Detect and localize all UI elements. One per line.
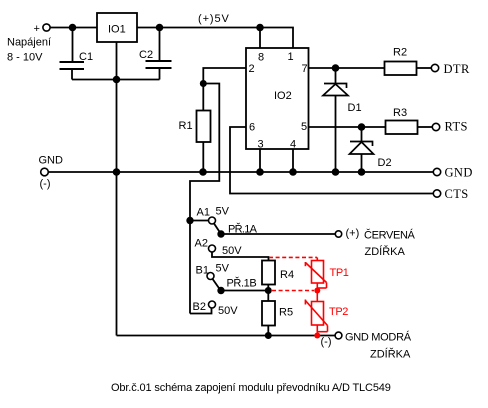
svg-text:ZDÍŘKA: ZDÍŘKA bbox=[370, 348, 411, 361]
svg-text:7: 7 bbox=[302, 63, 308, 75]
svg-text:D2: D2 bbox=[378, 157, 392, 169]
svg-text:50V: 50V bbox=[218, 305, 238, 317]
svg-text:(-): (-) bbox=[40, 178, 51, 190]
svg-text:GND: GND bbox=[39, 155, 64, 167]
svg-text:B1: B1 bbox=[196, 265, 209, 277]
svg-text:6: 6 bbox=[249, 122, 255, 134]
svg-text:Napájení: Napájení bbox=[7, 37, 51, 49]
svg-text:ČERVENÁ: ČERVENÁ bbox=[364, 229, 416, 242]
svg-text:TP1: TP1 bbox=[330, 267, 349, 279]
svg-text:R2: R2 bbox=[393, 47, 407, 59]
svg-text:DTR: DTR bbox=[444, 62, 470, 76]
svg-text:8: 8 bbox=[258, 52, 264, 64]
svg-text:ZDÍŘKA: ZDÍŘKA bbox=[365, 245, 406, 258]
svg-text:C1: C1 bbox=[79, 51, 93, 63]
svg-text:TP2: TP2 bbox=[329, 306, 348, 318]
svg-text:R4: R4 bbox=[280, 269, 294, 281]
svg-text:(+)5V: (+)5V bbox=[198, 13, 230, 25]
svg-text:+: + bbox=[34, 23, 40, 35]
svg-text:CTS: CTS bbox=[445, 187, 469, 201]
svg-text:5V: 5V bbox=[216, 206, 230, 218]
svg-text:5: 5 bbox=[301, 121, 307, 133]
svg-text:2: 2 bbox=[249, 63, 255, 75]
svg-text:IO2: IO2 bbox=[274, 90, 292, 102]
svg-text:4: 4 bbox=[290, 139, 296, 151]
svg-text:RTS: RTS bbox=[445, 120, 468, 134]
svg-text:5V: 5V bbox=[216, 263, 230, 275]
svg-text:(-): (-) bbox=[321, 336, 332, 348]
svg-text:50V: 50V bbox=[222, 245, 242, 257]
svg-text:8 - 10V: 8 - 10V bbox=[7, 52, 43, 64]
svg-text:R3: R3 bbox=[393, 107, 407, 119]
svg-text:GND MODRÁ: GND MODRÁ bbox=[345, 331, 412, 344]
svg-text:Obr.č.01 schéma zapojení modul: Obr.č.01 schéma zapojení modulu převodní… bbox=[111, 382, 391, 394]
svg-text:R1: R1 bbox=[179, 120, 193, 132]
svg-text:A2: A2 bbox=[195, 238, 208, 250]
svg-text:GND: GND bbox=[445, 166, 473, 180]
svg-text:PŘ.1A: PŘ.1A bbox=[228, 223, 258, 236]
svg-text:R5: R5 bbox=[279, 307, 293, 319]
svg-text:IO1: IO1 bbox=[108, 24, 126, 36]
svg-text:3: 3 bbox=[258, 139, 264, 151]
svg-text:(+): (+) bbox=[346, 228, 360, 240]
svg-text:PŘ.1B: PŘ.1B bbox=[227, 277, 257, 290]
svg-text:B2: B2 bbox=[193, 301, 206, 313]
svg-text:A1: A1 bbox=[197, 207, 210, 219]
svg-text:D1: D1 bbox=[348, 102, 362, 114]
svg-text:1: 1 bbox=[288, 51, 294, 63]
svg-text:C2: C2 bbox=[139, 49, 153, 61]
